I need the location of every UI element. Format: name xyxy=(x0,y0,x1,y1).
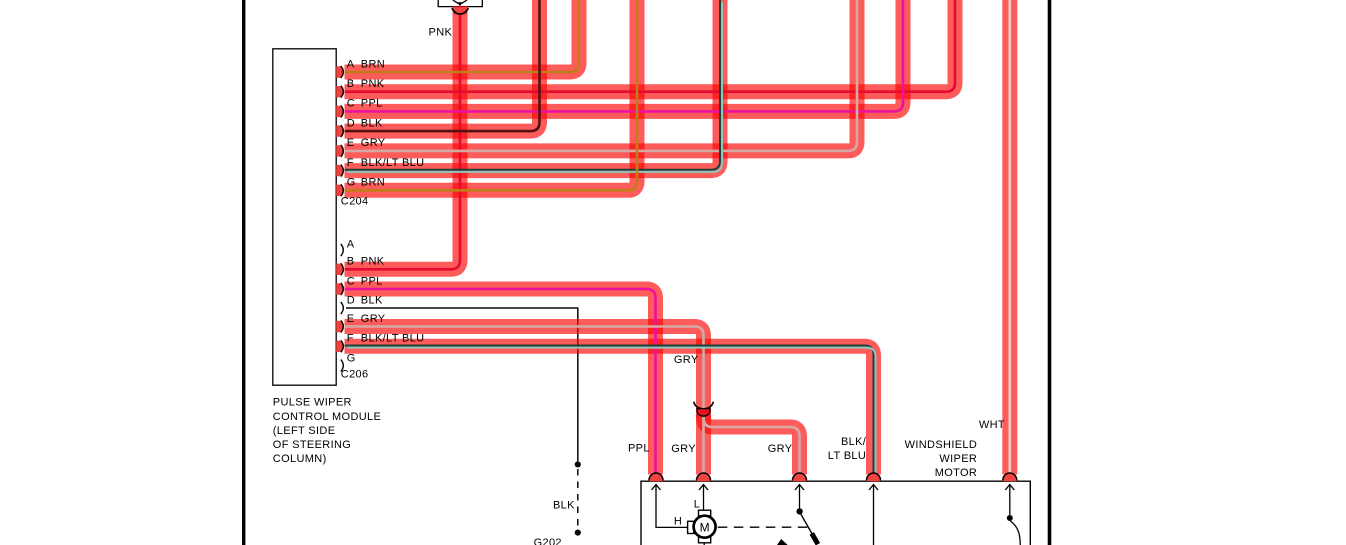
wire core BLK D xyxy=(345,0,540,131)
receptacle arc below top box xyxy=(452,8,468,14)
svg-text:PPL: PPL xyxy=(628,442,650,454)
highlight wire WHT to motor xyxy=(1002,0,1017,475)
svg-text:A: A xyxy=(347,238,355,250)
connector pin bumps C206 xyxy=(336,264,344,275)
pulse wiper control module box xyxy=(273,49,336,385)
pin arc C206 F xyxy=(341,340,344,352)
svg-text:PPL: PPL xyxy=(361,275,383,287)
pin arc C206 D xyxy=(341,302,344,314)
entry arrow PPL terminal xyxy=(652,485,661,491)
svg-text:M: M xyxy=(700,520,710,534)
wire core BLK/LT BLU F light blue stripe xyxy=(347,2,723,172)
svg-text:BLK/: BLK/ xyxy=(841,436,867,448)
svg-text:WHT: WHT xyxy=(979,419,1005,431)
pin arc C204 B xyxy=(341,86,344,98)
wire to L brush xyxy=(703,486,705,511)
wire core BRN G xyxy=(345,0,638,190)
park switch blade xyxy=(800,513,817,543)
pin arc C206 A xyxy=(341,244,344,256)
svg-text:GRY: GRY xyxy=(361,313,386,325)
highlight wire GRY C204 pin E xyxy=(345,0,858,151)
wire core BLK/LT BLU C206 light blue stripe xyxy=(347,348,876,475)
svg-text:PNK: PNK xyxy=(361,256,385,268)
wire core WHT xyxy=(1008,0,1011,475)
park switch pivot dot xyxy=(796,508,802,514)
terminal dome WHT at motor xyxy=(1003,474,1017,482)
entry arrow GRY terminal (park switch) xyxy=(795,485,804,491)
wire core GRY E xyxy=(345,0,858,151)
svg-text:GRY: GRY xyxy=(674,354,699,366)
svg-text:BRN: BRN xyxy=(361,58,385,70)
inline connector on GRY wire: bullet xyxy=(697,409,710,417)
pin arc C204 C xyxy=(341,105,344,117)
svg-text:BLK: BLK xyxy=(361,294,383,306)
motor brush rect top xyxy=(699,510,711,516)
left page border xyxy=(242,0,245,545)
pin arc C204 G xyxy=(341,184,344,196)
pin arc C206 B xyxy=(341,263,344,275)
svg-text:BLK: BLK xyxy=(361,117,383,129)
pin arc C204 E xyxy=(341,145,344,157)
svg-text:H: H xyxy=(674,515,682,527)
svg-text:MOTOR: MOTOR xyxy=(935,467,978,479)
svg-text:WIPER: WIPER xyxy=(939,453,977,465)
svg-text:PNK: PNK xyxy=(429,26,453,38)
svg-text:C206: C206 xyxy=(341,368,369,380)
svg-text:BLK: BLK xyxy=(553,500,575,512)
svg-text:PPL: PPL xyxy=(361,98,383,110)
highlight wire BLK/LT BLU C206 pin F to motor xyxy=(345,346,874,474)
windshield wiper motor box xyxy=(641,481,1030,545)
splice dot on BLK wire xyxy=(575,461,581,467)
highlight wire BLK/LT BLU C204 pin F xyxy=(345,0,721,171)
entry arrow WHT terminal xyxy=(1005,485,1014,491)
terminal dome BLK/LT BLU at motor xyxy=(867,474,881,482)
svg-text:PULSE WIPER: PULSE WIPER xyxy=(273,397,352,409)
wire core BRN A xyxy=(345,0,580,72)
highlight wire PNK C204 pin B xyxy=(345,0,956,92)
svg-text:WINDSHIELD: WINDSHIELD xyxy=(905,439,978,451)
svg-text:LT BLU: LT BLU xyxy=(828,450,866,462)
highlight wire GRY C206 pin E to motor xyxy=(345,327,704,475)
svg-text:COLUMN): COLUMN) xyxy=(273,453,327,465)
svg-text:CONTROL MODULE: CONTROL MODULE xyxy=(273,411,381,423)
highlight wire BRN C204 pin A xyxy=(345,0,580,72)
svg-text:E: E xyxy=(347,313,355,325)
svg-text:C: C xyxy=(347,98,355,110)
wire below lower brush xyxy=(703,543,705,545)
ground G202 dot xyxy=(575,530,581,536)
svg-text:B: B xyxy=(347,78,355,90)
wire core PPL C206 xyxy=(345,289,656,475)
WHT switch blade arc xyxy=(1010,521,1020,545)
connector pin bumps C204 xyxy=(336,66,344,77)
svg-text:OF STEERING: OF STEERING xyxy=(273,439,351,451)
pin arc C204 D xyxy=(341,125,344,137)
entry arrow BLK/LT BLU terminal xyxy=(869,485,878,491)
pin arc C206 E xyxy=(341,321,344,333)
highlight wire PPL C204 pin C xyxy=(345,0,904,111)
wire BLK from C206 pin D to ground G202 xyxy=(346,308,578,461)
svg-text:BLK/LT BLU: BLK/LT BLU xyxy=(361,157,425,169)
wire core BLK/LT BLU F black stripe xyxy=(345,0,721,170)
highlight wire PNK from top box to C206 pin B xyxy=(345,6,461,269)
svg-text:F: F xyxy=(347,157,354,169)
wire core PNK top xyxy=(345,6,461,269)
lower contact arrowhead xyxy=(777,539,788,545)
svg-text:L: L xyxy=(694,498,700,510)
terminal dome PPL at motor xyxy=(649,474,663,482)
wire core GRY C206 xyxy=(345,327,704,475)
right page border xyxy=(1048,0,1052,545)
dashed mechanical link from motor to park switch xyxy=(718,526,808,528)
arrow symbol inside top box xyxy=(453,0,467,3)
highlight wire BLK C204 pin D xyxy=(345,0,540,131)
wire core GRY branch xyxy=(704,414,800,475)
svg-text:GRY: GRY xyxy=(768,443,793,455)
motor brush rect bottom xyxy=(699,537,711,543)
dashed BLK wire to ground xyxy=(577,469,579,529)
svg-text:PNK: PNK xyxy=(361,78,385,90)
entry arrow GRY terminal L xyxy=(699,485,708,491)
svg-text:D: D xyxy=(347,117,355,129)
pin arc C204 A xyxy=(341,66,344,78)
highlight wire PPL C206 pin C to motor xyxy=(345,289,656,475)
wire core PNK B xyxy=(345,0,956,92)
highlight wire BRN C204 pin G xyxy=(345,0,638,190)
pin arc C204 F xyxy=(341,165,344,177)
component box at top (fuse symbol, cropped) xyxy=(438,0,482,7)
svg-text:GRY: GRY xyxy=(671,443,696,455)
pin arc C206 G xyxy=(341,360,344,372)
wire end bullet below top box xyxy=(453,7,467,14)
pin arc C206 C xyxy=(341,283,344,295)
terminal dome GRY park at motor xyxy=(793,474,807,482)
svg-text:G202: G202 xyxy=(534,537,562,545)
WHT switch pivot dot xyxy=(1007,515,1013,521)
svg-text:C: C xyxy=(347,275,355,287)
svg-text:BLK/LT BLU: BLK/LT BLU xyxy=(361,333,425,345)
wire to H brush xyxy=(656,486,688,528)
svg-text:D: D xyxy=(347,294,355,306)
svg-text:E: E xyxy=(347,137,355,149)
svg-text:GRY: GRY xyxy=(361,137,386,149)
inline connector on GRY wire: receptacle cup xyxy=(694,402,714,409)
wire core BLK/LT BLU C206 black stripe xyxy=(345,346,874,475)
wire core PPL C xyxy=(345,0,904,111)
svg-text:C204: C204 xyxy=(341,196,369,208)
park switch blade arrowhead xyxy=(812,533,818,544)
terminal dome GRY at motor xyxy=(697,474,711,482)
svg-text:G: G xyxy=(347,177,356,189)
svg-text:A: A xyxy=(347,58,355,70)
svg-text:B: B xyxy=(347,256,355,268)
motor H terminal rect xyxy=(688,521,694,533)
svg-text:G: G xyxy=(347,352,356,364)
svg-text:(LEFT SIDE: (LEFT SIDE xyxy=(273,425,336,437)
svg-text:BRN: BRN xyxy=(361,177,385,189)
svg-text:F: F xyxy=(347,333,354,345)
highlight wire GRY branch to park switch terminal xyxy=(704,414,800,475)
motor circle M xyxy=(694,516,716,538)
